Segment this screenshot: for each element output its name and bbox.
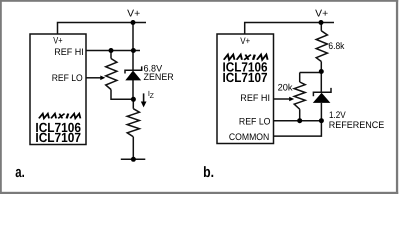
- svg-text:REFERENCE: REFERENCE: [329, 120, 385, 131]
- svg-text:REF HI: REF HI: [54, 47, 84, 58]
- svg-text:ICL7107: ICL7107: [223, 70, 268, 85]
- svg-text:V+: V+: [53, 36, 63, 47]
- svg-text:REF HI: REF HI: [240, 93, 270, 104]
- svg-text:REF LO: REF LO: [239, 117, 271, 128]
- svg-text:REF LO: REF LO: [52, 73, 83, 84]
- svg-text:b.: b.: [203, 164, 214, 181]
- svg-text:20k: 20k: [278, 82, 293, 93]
- svg-text:a.: a.: [15, 164, 24, 181]
- svg-text:ZENER: ZENER: [144, 72, 174, 83]
- svg-text:V+: V+: [127, 9, 140, 20]
- svg-text:COMMON: COMMON: [229, 132, 270, 143]
- svg-text:V+: V+: [240, 36, 250, 47]
- svg-text:V+: V+: [315, 9, 328, 20]
- svg-text:Z: Z: [150, 93, 155, 100]
- svg-text:6.8k: 6.8k: [328, 41, 344, 52]
- svg-text:ICL7107: ICL7107: [35, 130, 81, 145]
